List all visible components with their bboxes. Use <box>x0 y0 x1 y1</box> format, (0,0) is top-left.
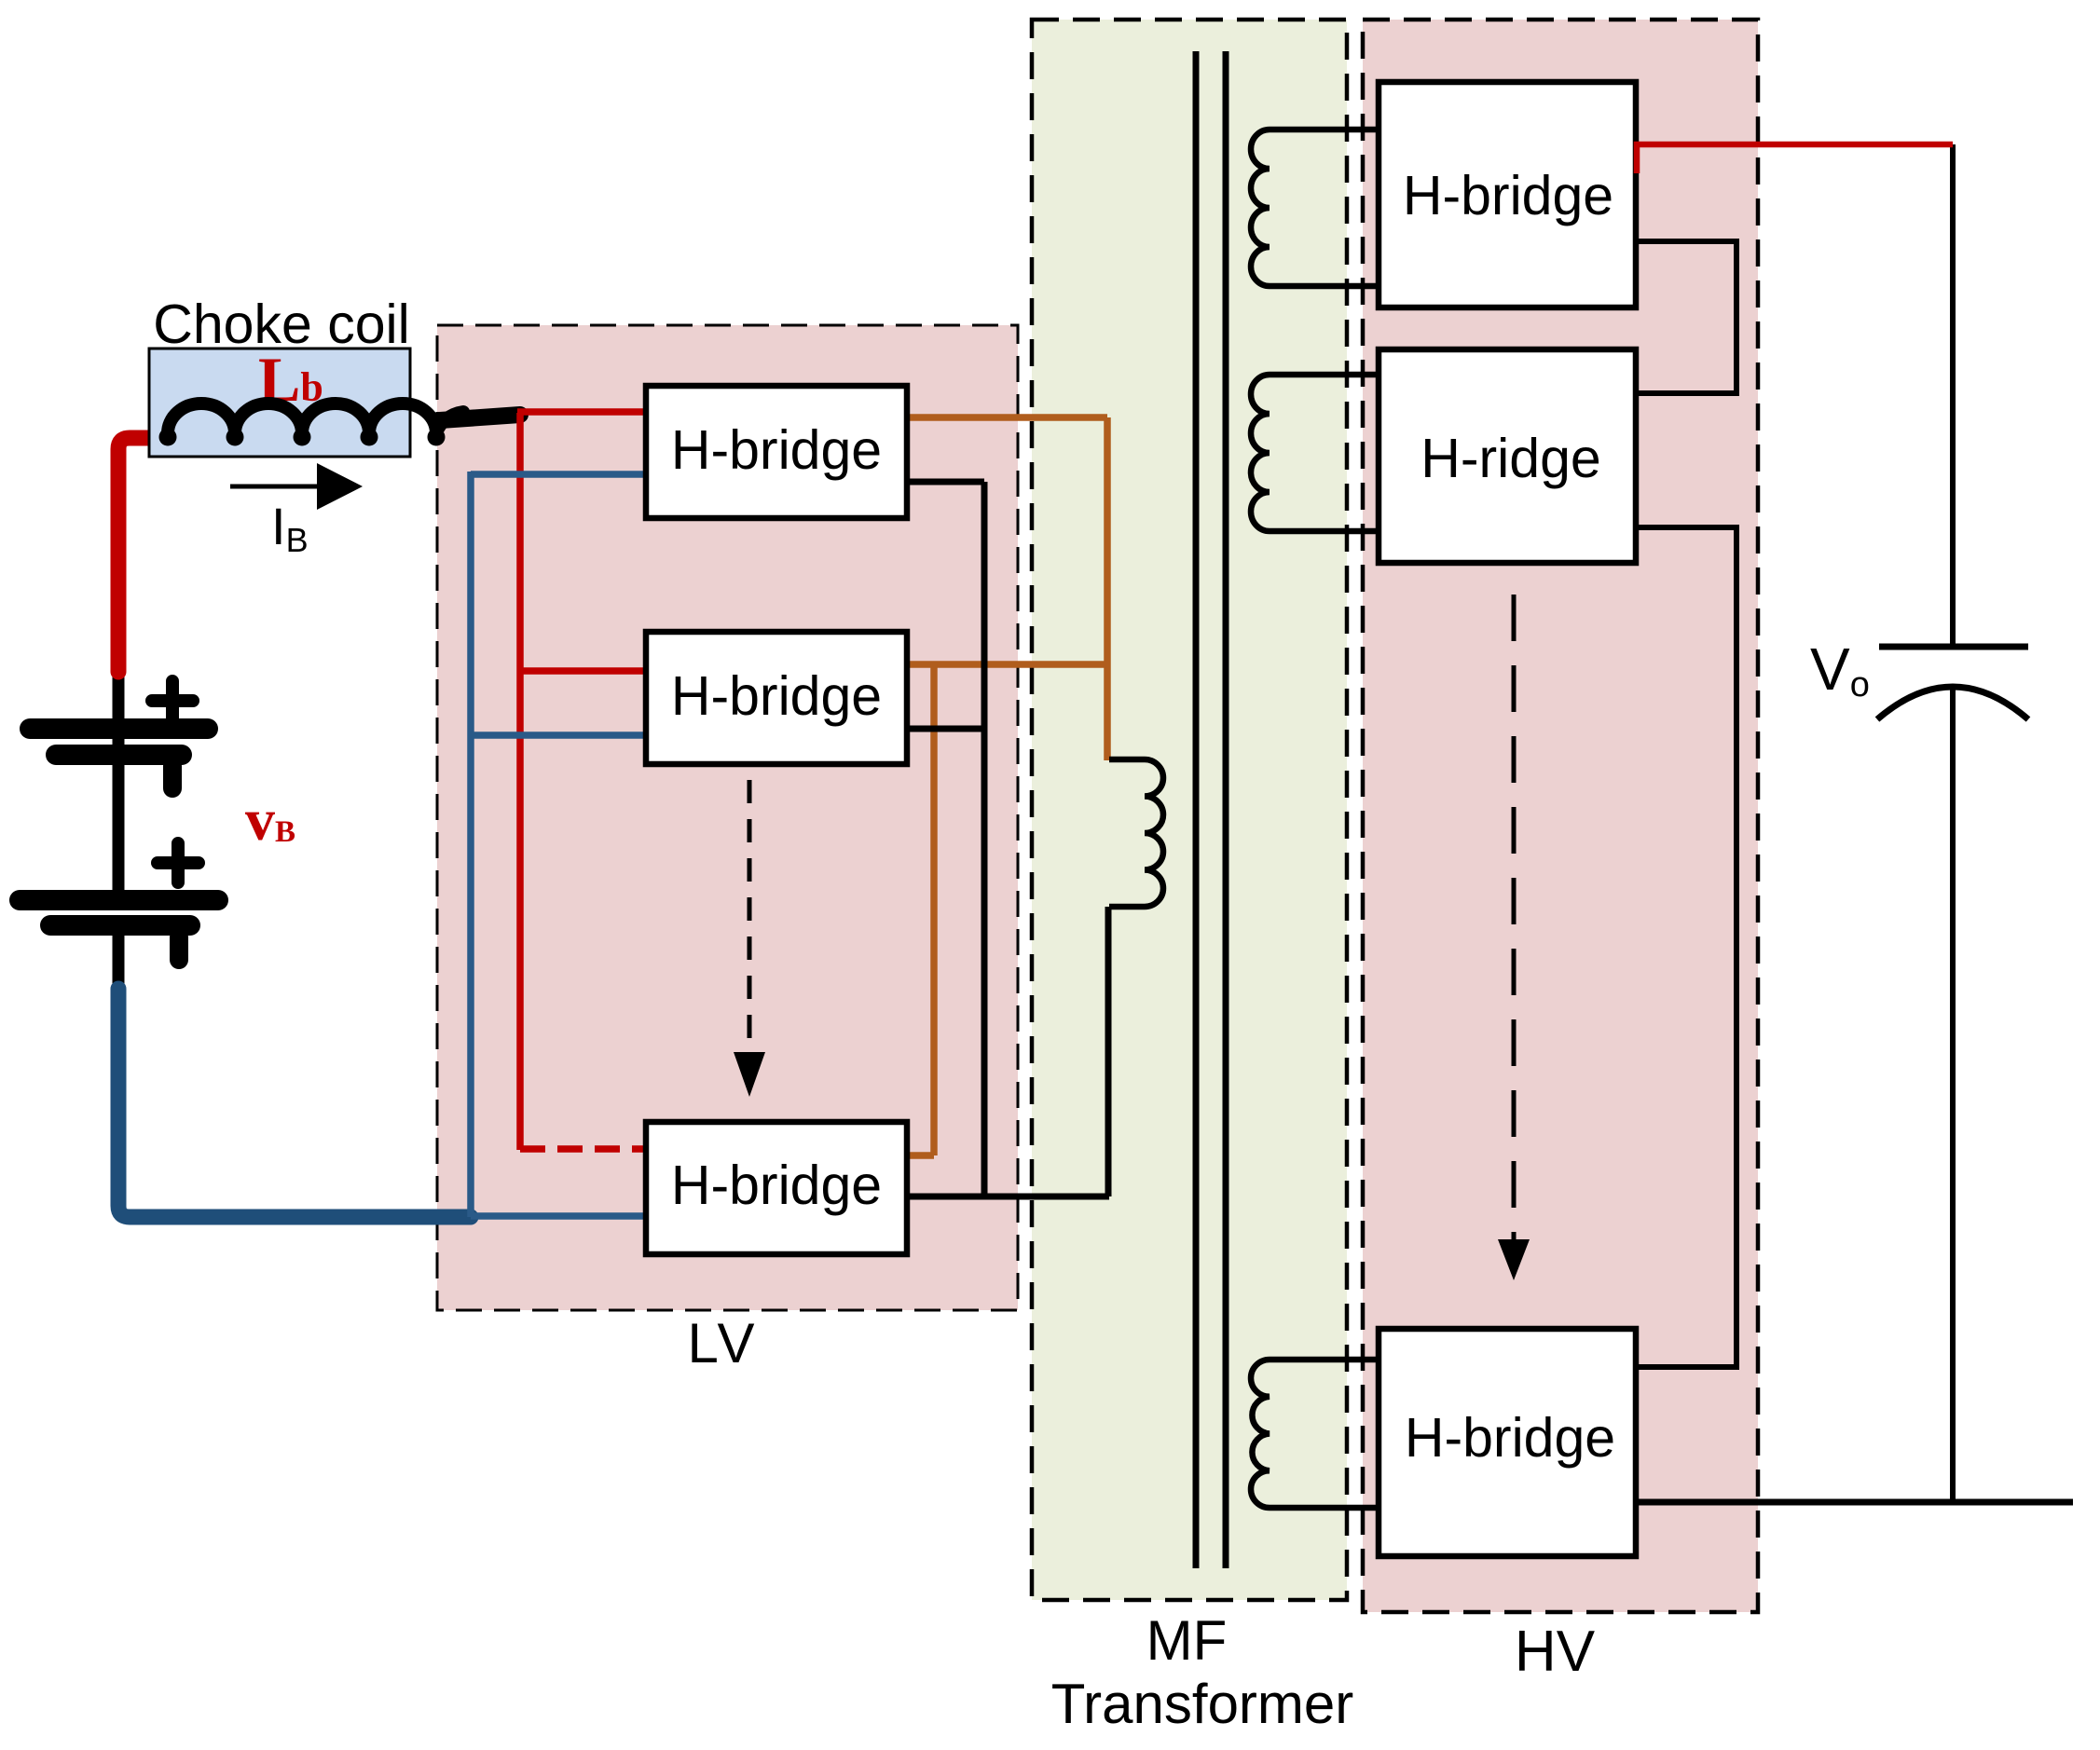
battery link wire bottom (black) <box>113 925 125 993</box>
H-bridge HV3 <box>1379 1329 1636 1556</box>
transformer core <box>1196 51 1226 1568</box>
dashed arrow LV <box>748 780 752 1049</box>
wire: brown H-bridge LV1 to primary <box>907 414 1107 421</box>
H-bridge HV2 (H-ridge) <box>1379 349 1636 563</box>
svg-text:Vo: Vo <box>1810 636 1870 704</box>
battery cell 2 long plate <box>20 890 218 910</box>
secondary winding 3 <box>1251 1360 1379 1508</box>
battery cell 1 short plate <box>56 745 182 765</box>
wire: black vertical return bus <box>981 482 988 1196</box>
wire: blue vertical bus in LV <box>467 472 474 1217</box>
battery cell 2 plus mark <box>158 843 199 882</box>
wire: brown H-bridge LV2 to bus <box>907 661 1107 668</box>
battery cell 1 plus mark <box>152 681 193 720</box>
svg-text:H-ridge: H-ridge <box>1421 428 1600 489</box>
battery cell 1 long plate <box>30 718 208 739</box>
wire: brown vertical to primary top <box>1104 417 1111 760</box>
output capacitor curved plate <box>1877 687 2028 719</box>
primary winding <box>1109 759 1163 907</box>
HV region box <box>1363 20 1758 1612</box>
H-bridge LV1 <box>646 386 907 518</box>
inductor Lb winding <box>168 403 463 433</box>
wire: HV series link 2 <box>1636 527 1736 1367</box>
choke coil box <box>149 349 410 457</box>
wire: dashed red to H-bridge LV3 <box>520 1145 648 1153</box>
wire: blue to H-bridge LV3 <box>471 1212 650 1220</box>
battery link wire top (black) <box>113 663 125 900</box>
H-bridge LV2 <box>646 632 907 764</box>
svg-text:H-bridge: H-bridge <box>671 665 882 727</box>
svg-text:Transformer: Transformer <box>1051 1673 1354 1735</box>
wire: black H-bridge LV2 return <box>904 726 984 732</box>
wire: thick blue battery negative <box>118 989 471 1217</box>
svg-text:LV: LV <box>688 1312 758 1374</box>
dashed arrow HV <box>1512 595 1517 1239</box>
H-bridge HV1 <box>1379 82 1636 308</box>
svg-text:MF: MF <box>1146 1609 1228 1672</box>
battery mid link wire <box>113 755 125 900</box>
wire: brown branch to H-bridge LV3 <box>907 664 934 1155</box>
secondary winding 2 <box>1251 375 1379 531</box>
svg-text:IB: IB <box>271 497 309 559</box>
wire: thick red battery positive to inductor <box>118 438 170 672</box>
secondary winding 1 <box>1251 130 1379 286</box>
battery cell 2 short plate <box>50 915 190 936</box>
wire: red to H-bridge LV2 <box>517 667 649 675</box>
wire: blue to H-bridge LV2 <box>471 731 649 739</box>
svg-text:HV: HV <box>1515 1620 1596 1684</box>
wire: red to H-bridge LV1 <box>517 408 649 416</box>
battery cell 1 plate stub <box>163 766 182 788</box>
svg-text:H-bridge: H-bridge <box>671 1155 882 1216</box>
wire: red HV output <box>1637 144 1953 173</box>
inductor right lead <box>440 415 520 420</box>
output capacitor top plate <box>1879 644 2028 650</box>
wire: black H-bridge LV1 return <box>904 479 984 485</box>
wire: red vertical bus in LV <box>516 413 524 1150</box>
wire: black primary bottom return <box>1105 907 1112 1196</box>
inductor cusp knobs <box>159 429 177 446</box>
svg-text:H-bridge: H-bridge <box>671 419 882 481</box>
current arrow IB <box>230 485 322 489</box>
wire: HV series link 1 <box>1636 241 1736 393</box>
battery cell 2 plate stub <box>170 937 188 960</box>
wire: output bottom return <box>1636 1499 2073 1506</box>
svg-text:vB: vB <box>245 786 295 853</box>
wire: black H-bridge LV3 return <box>904 1194 1109 1200</box>
LV region box <box>437 325 1018 1310</box>
wire: output bus right vertical <box>1950 144 1956 647</box>
svg-text:H-bridge: H-bridge <box>1403 165 1613 226</box>
H-bridge LV3 <box>646 1122 907 1254</box>
wire: blue to H-bridge LV1 <box>471 471 649 478</box>
MF transformer region box <box>1032 20 1347 1600</box>
svg-text:H-bridge: H-bridge <box>1405 1407 1615 1469</box>
